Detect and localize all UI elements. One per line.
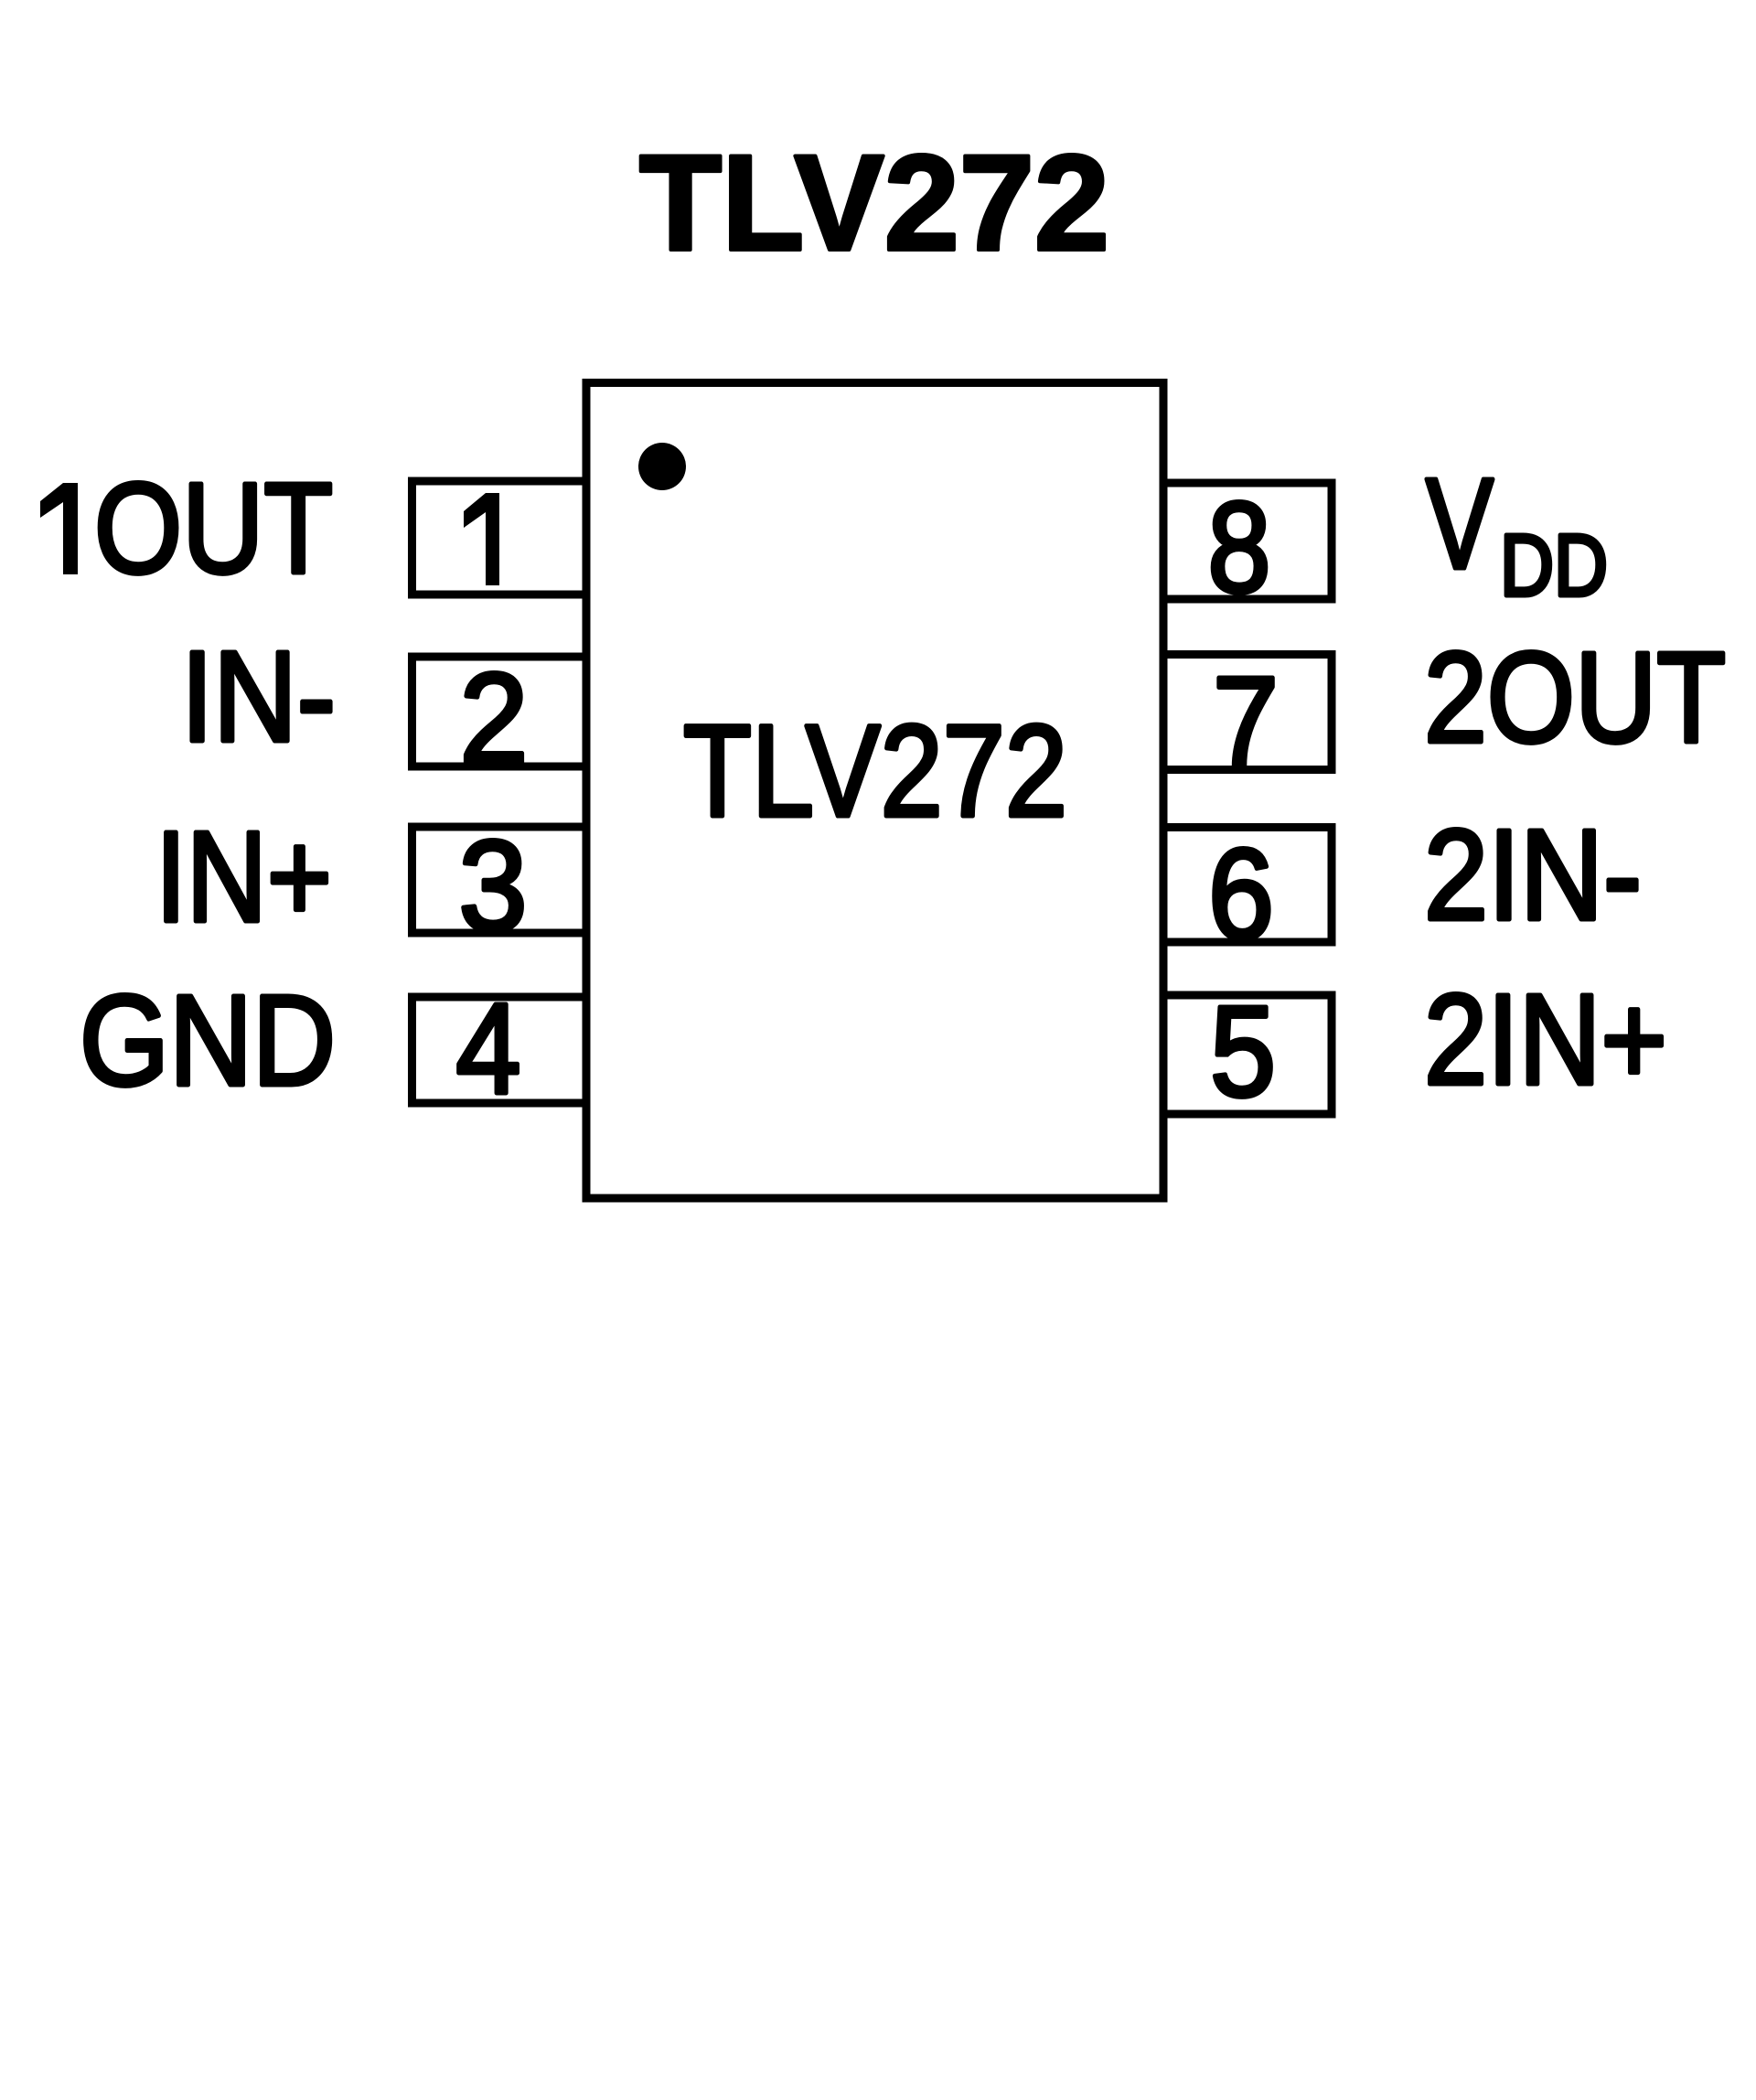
svg-text:V: V [1426, 451, 1494, 595]
pin 7 box [1163, 655, 1332, 770]
svg-text:IN+: IN+ [155, 804, 332, 948]
svg-text:DD: DD [1500, 517, 1608, 615]
IC body U1 TLV272 [586, 383, 1163, 1199]
svg-text:2IN+: 2IN+ [1424, 967, 1667, 1111]
svg-text:5: 5 [1210, 979, 1276, 1123]
svg-text:4: 4 [456, 976, 521, 1120]
net label 1OUT (pin 1) [40, 483, 78, 574]
svg-text:7: 7 [1213, 649, 1279, 794]
svg-text:2: 2 [460, 646, 529, 790]
svg-text:IN-: IN- [181, 624, 336, 768]
svg-text:TLV272: TLV272 [639, 126, 1109, 279]
svg-text:8: 8 [1208, 475, 1271, 619]
svg-text:OUT: OUT [94, 455, 333, 600]
svg-text:GND: GND [80, 968, 336, 1112]
svg-text:3: 3 [459, 813, 528, 958]
pin 1 indicator dot [638, 443, 686, 490]
pin 5 box [1163, 995, 1332, 1114]
pin 2 box [412, 657, 587, 766]
pin 3 box [412, 827, 587, 933]
pin 8 box [1163, 483, 1332, 599]
svg-text:6: 6 [1208, 821, 1274, 966]
svg-text:2OUT: 2OUT [1424, 625, 1726, 769]
pin 1 box [412, 481, 587, 595]
pin 4 box [412, 997, 587, 1103]
pin number 1 [464, 493, 499, 585]
svg-text:TLV272: TLV272 [683, 699, 1067, 844]
pin 6 box [1163, 828, 1332, 943]
svg-text:2IN-: 2IN- [1424, 802, 1642, 947]
